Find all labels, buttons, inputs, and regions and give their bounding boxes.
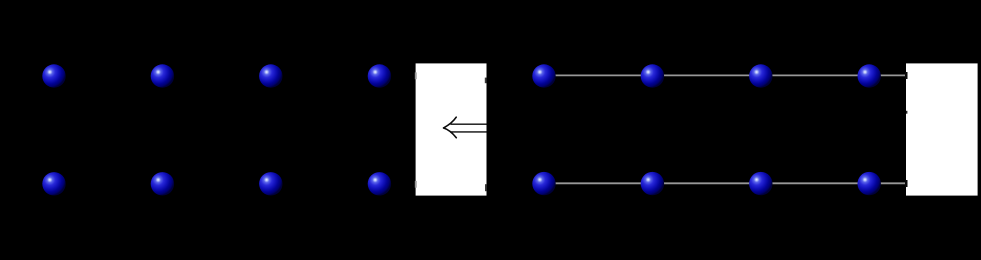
atom right row1 col1: [532, 64, 555, 87]
atom left row1 col4: [368, 64, 391, 87]
atom right row1 col3: [749, 64, 772, 87]
tick mark box1 top-right edge: [485, 78, 487, 84]
atom right row1 col2: [641, 64, 664, 87]
white label box right: [906, 63, 978, 195]
tick mark box1 bottom-right edge: [485, 184, 487, 191]
left arrow upper barb: [444, 117, 457, 128]
atom right row1 col4: [858, 64, 881, 87]
atom left row1 col1: [42, 64, 65, 87]
small nub box2 left edge middle: [906, 111, 907, 114]
atom left row1 col2: [151, 64, 174, 87]
atom right row2 col3: [749, 172, 772, 195]
atom left row2 col2: [151, 172, 174, 195]
left arrow shaft upper line: [450, 123, 486, 125]
tick mark box2 bottom-left edge: [905, 180, 908, 187]
chain bond line bottom (right lattice): [544, 182, 905, 184]
atom right row2 col4: [858, 172, 881, 195]
chain bond line top (right lattice): [544, 74, 905, 76]
atom left row2 col3: [259, 172, 282, 195]
left arrow lower barb: [444, 128, 457, 138]
left arrow shaft lower line: [450, 131, 487, 133]
tick mark box2 top-left edge: [905, 72, 908, 79]
atom left row2 col1: [42, 172, 65, 195]
atom right row2 col2: [641, 172, 664, 195]
atom left row2 col4: [368, 172, 391, 195]
atom right row2 col1: [532, 172, 555, 195]
atom left row1 col3: [259, 64, 282, 87]
white label box left: [416, 63, 487, 195]
tick mark box1 bottom-left edge: [415, 181, 417, 188]
tick mark box1 top-left edge: [415, 72, 417, 79]
